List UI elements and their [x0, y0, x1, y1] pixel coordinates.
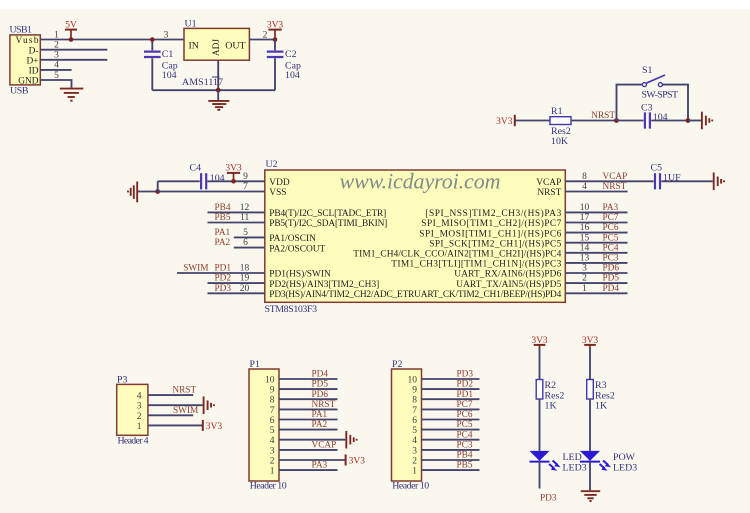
svg-text:PC7: PC7 [603, 213, 619, 223]
svg-text:PD2: PD2 [215, 274, 232, 284]
svg-text:TIM1_CH3[TLI][TIM1_CH1N]/(HS)P: TIM1_CH3[TLI][TIM1_CH1N]/(HS)PC3 [391, 259, 561, 270]
wire to ground [688, 120, 701, 122]
wire P1 pin1 PA3 [279, 469, 338, 471]
wire C5 to ground [661, 180, 712, 182]
svg-text:NRST: NRST [591, 111, 615, 121]
svg-text:PB4: PB4 [457, 451, 473, 461]
wire PC3 pin13 [565, 262, 627, 264]
svg-text:2: 2 [137, 412, 142, 422]
wire P3 pin2 SWIM [148, 414, 193, 416]
svg-text:PD3: PD3 [540, 493, 557, 503]
svg-text:19: 19 [240, 274, 250, 284]
wire GND pin5 [40, 80, 71, 88]
svg-text:IN: IN [189, 40, 199, 51]
svg-text:17: 17 [580, 213, 590, 223]
ground under POW LED [581, 491, 600, 501]
svg-text:1K: 1K [545, 401, 558, 412]
svg-text:6: 6 [243, 238, 248, 248]
svg-text:PA1: PA1 [215, 228, 231, 238]
switch S1 SW-SPST [642, 65, 679, 101]
wire P2 pin5 PC5 [422, 429, 480, 431]
wire C4 to VDD pin9 [208, 180, 265, 182]
svg-text:C5: C5 [651, 163, 663, 174]
ground under U1 [208, 90, 229, 110]
svg-text:P1: P1 [250, 359, 260, 370]
svg-text:20: 20 [240, 284, 250, 294]
svg-text:PA2: PA2 [312, 420, 328, 430]
wire P1 pin5 PA2 [279, 429, 338, 431]
wire PD1 SWIM pin18 [177, 272, 265, 274]
svg-text:PA1: PA1 [312, 410, 328, 420]
svg-text:104: 104 [653, 112, 668, 123]
wire VDD left segment [158, 180, 200, 182]
wire P3 pin1 to 3V3 [148, 424, 203, 426]
svg-text:PD1: PD1 [215, 264, 232, 274]
svg-text:6: 6 [412, 416, 417, 426]
wire VCAP pin8 [565, 180, 653, 182]
wire P2 pin1 PB5 [422, 469, 480, 471]
capacitor C3 [641, 103, 668, 129]
U2 pin names right [353, 178, 561, 290]
svg-text:2: 2 [412, 457, 417, 467]
svg-text:AMS1117: AMS1117 [182, 77, 223, 88]
svg-text:9: 9 [412, 386, 417, 396]
svg-text:104: 104 [210, 173, 225, 184]
svg-text:4: 4 [412, 436, 417, 446]
wire PD2 pin19 [208, 282, 265, 284]
svg-text:UART_RX/AIN6/(HS)PD6: UART_RX/AIN6/(HS)PD6 [454, 269, 561, 280]
svg-text:PC7: PC7 [457, 400, 473, 410]
svg-text:SW-SPST: SW-SPST [642, 90, 679, 101]
wire switch to right branch [662, 85, 688, 121]
junction right of C3 [686, 118, 691, 123]
svg-text:PD4: PD4 [312, 370, 329, 380]
power 5V [65, 21, 77, 42]
wire D- [40, 49, 107, 51]
svg-text:C1: C1 [162, 49, 174, 60]
svg-text:PD3: PD3 [457, 370, 474, 380]
svg-text:U1: U1 [185, 19, 197, 30]
svg-text:8: 8 [582, 172, 587, 182]
svg-text:10: 10 [408, 376, 418, 386]
wire ground to VSS junction [138, 191, 158, 193]
wire PA3 pin10 [565, 211, 627, 213]
svg-text:PC5: PC5 [457, 420, 473, 430]
svg-text:PD3(HS)/AIN4/TIM2_CH2/ADC_ETRU: PD3(HS)/AIN4/TIM2_CH2/ADC_ETRUART_CK/TIM… [269, 289, 561, 300]
svg-text:3V3: 3V3 [225, 164, 242, 174]
svg-text:UART_TX/AIN5/(HS)PD5: UART_TX/AIN5/(HS)PD5 [456, 279, 561, 290]
wire R3 to LED [589, 399, 591, 451]
wire R2 to LED [539, 399, 541, 451]
svg-text:P3: P3 [117, 375, 127, 386]
svg-text:PB5(T)/I2C_SDA[TIMI_BKIN]: PB5(T)/I2C_SDA[TIMI_BKIN] [269, 218, 387, 229]
wire VSS pin7 [158, 191, 265, 193]
svg-text:7: 7 [270, 406, 275, 416]
capacitor C4 [190, 163, 225, 190]
svg-text:3V3: 3V3 [349, 457, 366, 467]
svg-text:PA2: PA2 [215, 238, 231, 248]
svg-text:5: 5 [243, 228, 248, 238]
svg-text:PC3: PC3 [457, 441, 473, 451]
connector P3 Header 4 [117, 375, 149, 447]
svg-text:R1: R1 [551, 106, 563, 117]
resistor R3 [587, 380, 615, 412]
svg-text:3: 3 [270, 446, 275, 456]
svg-text:USB1: USB1 [10, 24, 32, 35]
wire D+ [40, 59, 107, 61]
wire PA2 pin6 [234, 247, 265, 249]
wire ID [40, 69, 71, 71]
wire P3 pin4 NRST [148, 394, 193, 396]
svg-text:PC5: PC5 [603, 233, 619, 243]
wire PC7 pin17 [565, 222, 627, 224]
resistor R2 [536, 380, 564, 412]
wire PD3 pin20 [208, 292, 265, 294]
svg-text:11: 11 [240, 213, 249, 223]
svg-text:PD2(HS)/AIN3[TIM2_CH3]: PD2(HS)/AIN3[TIM2_CH3] [269, 279, 379, 290]
svg-text:PC6: PC6 [603, 223, 619, 233]
svg-text:PC3: PC3 [603, 254, 619, 264]
wire LED to PD3 [539, 462, 541, 489]
svg-text:9: 9 [270, 386, 275, 396]
svg-text:2: 2 [270, 457, 275, 467]
wire LED to ground [589, 462, 591, 491]
svg-text:U2: U2 [266, 159, 278, 170]
power 3V3 P1 [346, 455, 366, 467]
svg-text:10K: 10K [551, 136, 569, 147]
wire R1 to NRST node [571, 120, 617, 122]
svg-text:3: 3 [412, 446, 417, 456]
svg-text:PD1(HS)/SWIN: PD1(HS)/SWIN [269, 269, 331, 280]
wire P2 pin6 PC6 [422, 419, 480, 421]
svg-text:OUT: OUT [225, 40, 245, 51]
svg-text:12: 12 [240, 203, 250, 213]
svg-text:PA3: PA3 [603, 203, 619, 213]
svg-text:10: 10 [265, 376, 275, 386]
svg-text:LED3: LED3 [613, 462, 637, 473]
svg-text:C3: C3 [641, 103, 653, 114]
svg-text:3V3: 3V3 [496, 117, 513, 127]
regulator U1 AMS1117 [182, 19, 249, 88]
wire P1 pin4 to ground [279, 439, 345, 441]
svg-text:D-: D- [29, 46, 39, 56]
svg-text:7: 7 [412, 406, 417, 416]
svg-text:7: 7 [243, 182, 248, 192]
svg-text:3V3: 3V3 [206, 422, 223, 432]
wire C3 to junction [651, 120, 688, 122]
svg-text:C4: C4 [190, 163, 202, 174]
svg-text:PD6: PD6 [312, 390, 329, 400]
wire P2 pin9 PD2 [422, 388, 480, 390]
wire PC6 pin16 [565, 232, 627, 234]
svg-text:PD6: PD6 [603, 264, 620, 274]
wire P2 pin10 PD3 [422, 378, 480, 380]
svg-text:15: 15 [580, 233, 590, 243]
ground sideways P3 [204, 396, 214, 414]
svg-text:PB4: PB4 [215, 203, 231, 213]
svg-text:VCAP: VCAP [312, 441, 337, 451]
svg-text:VDD: VDD [269, 178, 290, 188]
svg-text:1: 1 [412, 467, 417, 477]
svg-text:Vusb: Vusb [16, 36, 39, 46]
wire riser to VDD line [157, 181, 159, 191]
LED POW LED3 [580, 451, 637, 473]
ground sideways reset [702, 112, 712, 130]
capacitor C1 [144, 37, 178, 90]
svg-text:VCAP: VCAP [536, 178, 561, 188]
resistor R1 [550, 106, 571, 147]
wire ground rail C1-C2 [152, 89, 275, 91]
svg-text:SPI_MISO[TIM1_CH2]/(HS)PC7: SPI_MISO[TIM1_CH2]/(HS)PC7 [421, 218, 561, 229]
wire PD6 pin3 [565, 272, 627, 274]
wire NRST to C3 [617, 120, 644, 122]
wire 3V3 to R3 [589, 348, 591, 380]
wire P2 pin8 PD1 [422, 398, 480, 400]
power 3V3 at VDD [225, 164, 242, 184]
svg-text:TIM1_CH4/CLK_CCO/AIN2[TIM1_CH2: TIM1_CH4/CLK_CCO/AIN2[TIM1_CH2I]/(HS)PC4 [353, 249, 561, 260]
ground sideways VCAP [714, 173, 724, 191]
wire P2 pin2 PB4 [422, 459, 480, 461]
svg-text:PA3: PA3 [312, 461, 328, 471]
svg-text:PD2: PD2 [457, 380, 474, 390]
wire NRST pin4 [565, 191, 627, 193]
connector USB1 [10, 24, 41, 96]
wire 3V3 to R2 [539, 348, 541, 380]
svg-text:1: 1 [270, 467, 275, 477]
wire Vusb 5V rail [40, 39, 184, 41]
svg-text:3V3: 3V3 [267, 21, 284, 31]
wire PB4 pin12 [208, 211, 265, 213]
svg-text:1: 1 [582, 284, 587, 294]
svg-text:PD4: PD4 [603, 284, 620, 294]
wire P1 pin3 VCAP [279, 449, 338, 451]
svg-text:VCAP: VCAP [603, 172, 628, 182]
wire 3V3 to R1 [515, 120, 550, 122]
svg-text:D+: D+ [26, 57, 38, 67]
U2 pin names left [269, 178, 561, 300]
svg-text:PB4(T)/I2C_SCL[TADC_ETR]: PB4(T)/I2C_SCL[TADC_ETR] [269, 208, 386, 219]
svg-text:P2: P2 [392, 359, 402, 370]
wire U1 OUT [249, 39, 275, 41]
svg-text:5: 5 [270, 426, 275, 436]
svg-text:6: 6 [270, 416, 275, 426]
svg-text:NRST: NRST [172, 386, 196, 396]
wire P3 pin3 to ground [148, 404, 203, 406]
svg-text:SPI_MOSI[TIM1_CH1]/(HS)PC6: SPI_MOSI[TIM1_CH1]/(HS)PC6 [419, 228, 561, 239]
wire P1 pin10 PD4 [279, 378, 338, 380]
power 3V3 R3 [582, 336, 599, 349]
svg-text:4: 4 [270, 436, 275, 446]
svg-text:18: 18 [240, 264, 250, 274]
svg-text:C2: C2 [285, 49, 297, 60]
svg-text:www.icdayroi.com: www.icdayroi.com [340, 169, 501, 194]
LED D1 LED3 [530, 451, 587, 473]
svg-text:USB: USB [10, 86, 29, 97]
svg-text:PC6: PC6 [457, 410, 473, 420]
wire P1 pin2 to 3V3 [279, 459, 346, 461]
wire P2 pin3 PC3 [422, 449, 480, 451]
svg-text:SPI_SCK[TIM2_CH1]/(HS)PC5: SPI_SCK[TIM2_CH1]/(HS)PC5 [429, 238, 561, 249]
svg-text:10: 10 [580, 203, 590, 213]
svg-text:PD3: PD3 [215, 284, 232, 294]
junction NRST left [614, 118, 619, 123]
wire PD4 pin1 [565, 292, 627, 294]
svg-text:5: 5 [412, 426, 417, 436]
svg-text:5V: 5V [65, 21, 77, 31]
svg-text:104: 104 [162, 70, 177, 81]
junction VSS [155, 189, 160, 194]
svg-text:PC4: PC4 [457, 430, 473, 440]
svg-text:S1: S1 [642, 65, 652, 76]
wire PC5 pin15 [565, 242, 627, 244]
capacitor C2 [267, 40, 301, 91]
svg-text:13: 13 [580, 254, 590, 264]
svg-text:PB5: PB5 [215, 213, 231, 223]
svg-text:3: 3 [137, 402, 142, 412]
svg-text:Header 4: Header 4 [118, 436, 149, 447]
svg-text:PD1: PD1 [457, 390, 474, 400]
wire P1 pin7 NRST [279, 408, 338, 410]
svg-text:LED3: LED3 [563, 462, 587, 473]
svg-text:16: 16 [580, 223, 590, 233]
wire PC4 pin14 [565, 252, 627, 254]
wire PA1 pin5 [234, 236, 265, 238]
connector P2 Header 10 [392, 359, 430, 491]
svg-text:VSS: VSS [269, 188, 286, 198]
svg-text:14: 14 [580, 243, 590, 253]
svg-text:4: 4 [137, 392, 142, 402]
svg-text:Header 10: Header 10 [250, 480, 287, 491]
svg-text:PB5: PB5 [457, 461, 473, 471]
wire P2 pin4 PC4 [422, 439, 480, 441]
svg-text:4: 4 [582, 182, 587, 192]
svg-text:STM8S103F3: STM8S103F3 [265, 304, 318, 315]
svg-text:104: 104 [285, 70, 300, 81]
svg-text:PA1/OSCIN: PA1/OSCIN [269, 234, 316, 244]
svg-text:1K: 1K [595, 401, 608, 412]
svg-text:ID: ID [29, 67, 39, 77]
svg-text:SWIM: SWIM [173, 406, 198, 416]
svg-text:NRST: NRST [537, 188, 561, 198]
svg-text:Header 10: Header 10 [392, 480, 429, 491]
wire up to switch [617, 85, 643, 121]
svg-text:8: 8 [270, 396, 275, 406]
capacitor C5 [651, 163, 682, 190]
wire P1 pin6 PA1 [279, 419, 338, 421]
power 3V3 reset circuit [496, 115, 515, 127]
power 3V3 P3 [203, 420, 223, 432]
wire PD5 pin2 [565, 282, 627, 284]
junction ADJ rail [216, 88, 221, 93]
power 3V3 R2 [531, 336, 548, 349]
svg-text:GND: GND [18, 77, 39, 87]
svg-text:SWIM: SWIM [183, 264, 208, 274]
MCU U2 STM8S103F3 [265, 159, 566, 315]
svg-text:ADJ: ADJ [212, 39, 222, 57]
ground under USB [60, 89, 83, 101]
svg-text:PC4: PC4 [603, 243, 619, 253]
svg-text:3: 3 [164, 30, 169, 40]
svg-text:NRST: NRST [603, 182, 627, 192]
svg-text:3: 3 [582, 264, 587, 274]
svg-text:PA2/OSCOUT: PA2/OSCOUT [269, 244, 325, 254]
svg-text:[SPI_NSS]TIM2_CH3/(HS)PA3: [SPI_NSS]TIM2_CH3/(HS)PA3 [425, 208, 561, 219]
svg-text:1: 1 [137, 422, 142, 432]
wire P2 pin7 PC7 [422, 408, 480, 410]
ground sideways P1 [346, 431, 356, 449]
connector P1 Header 10 [249, 359, 287, 491]
wire P1 pin9 PD5 [279, 388, 338, 390]
svg-text:PD5: PD5 [603, 274, 620, 284]
svg-text:9: 9 [243, 172, 248, 182]
wire U1 ADJ to ground rail [217, 60, 219, 90]
svg-text:8: 8 [412, 396, 417, 406]
wire PB5 pin11 [208, 222, 265, 224]
ground left of U2 [128, 182, 137, 203]
svg-text:PD5: PD5 [312, 380, 329, 390]
wire P1 pin8 PD6 [279, 398, 338, 400]
svg-text:NRST: NRST [312, 400, 336, 410]
svg-text:2: 2 [582, 274, 587, 284]
power 3V3 at U1 out [267, 21, 284, 42]
